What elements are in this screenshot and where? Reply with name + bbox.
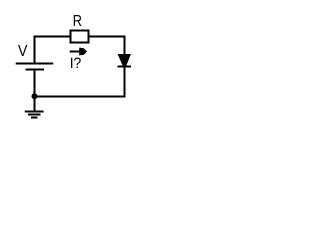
diode D1 xyxy=(118,54,132,67)
wire bottom horizontal xyxy=(34,96,126,98)
svg-text:I?: I? xyxy=(70,55,82,72)
wire left vertical upper xyxy=(34,36,36,64)
wire right vertical upper xyxy=(124,36,126,55)
current arrow I xyxy=(70,48,87,56)
resistor R (box) xyxy=(71,31,89,43)
battery V (voltage source) xyxy=(16,64,54,70)
wire top horizontal xyxy=(34,36,126,38)
wire right vertical lower xyxy=(124,67,126,98)
svg-text:R: R xyxy=(73,13,82,30)
wire left vertical lower xyxy=(34,70,36,97)
ground xyxy=(25,97,44,118)
svg-text:V: V xyxy=(18,43,28,60)
node junction dot xyxy=(32,93,38,99)
